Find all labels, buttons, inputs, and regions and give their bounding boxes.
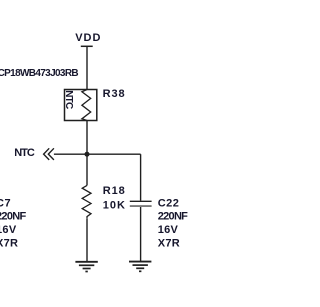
svg-text:C7: C7	[0, 197, 11, 209]
power VDD	[75, 32, 101, 47]
svg-text:220NF: 220NF	[0, 211, 26, 223]
svg-text:X7R: X7R	[0, 237, 18, 249]
svg-text:NTC: NTC	[14, 147, 35, 159]
svg-text:NTC: NTC	[63, 90, 74, 109]
off-page connector chevrons	[44, 148, 54, 160]
svg-text:VDD: VDD	[75, 32, 101, 44]
svg-text:X7R: X7R	[158, 237, 180, 249]
svg-text:NCP18WB473J03RB: NCP18WB473J03RB	[0, 68, 78, 79]
svg-text:10K: 10K	[103, 200, 126, 212]
capacitor C22 top plate	[130, 200, 152, 202]
wire capacitor to ground	[140, 207, 142, 262]
svg-text:C22: C22	[158, 197, 180, 209]
svg-text:R18: R18	[103, 185, 126, 197]
wire NTC connector to right branch	[54, 153, 141, 155]
svg-text:16V: 16V	[0, 224, 17, 236]
capacitor C22 bottom plate	[130, 205, 152, 207]
svg-text:220NF: 220NF	[158, 211, 188, 223]
wire thermistor to junction	[86, 121, 88, 186]
wire VDD to thermistor	[86, 46, 88, 89]
thermistor R38 zigzag	[82, 90, 91, 121]
wire right branch down to capacitor	[140, 154, 142, 201]
svg-text:R38: R38	[103, 88, 126, 100]
wire R18 to ground	[86, 219, 88, 262]
junction dot	[85, 152, 90, 157]
ground right	[129, 262, 151, 272]
resistor R18 zigzag	[82, 185, 91, 218]
svg-text:16V: 16V	[158, 224, 179, 236]
thermistor R38 box	[65, 90, 97, 121]
ground left	[75, 262, 97, 272]
